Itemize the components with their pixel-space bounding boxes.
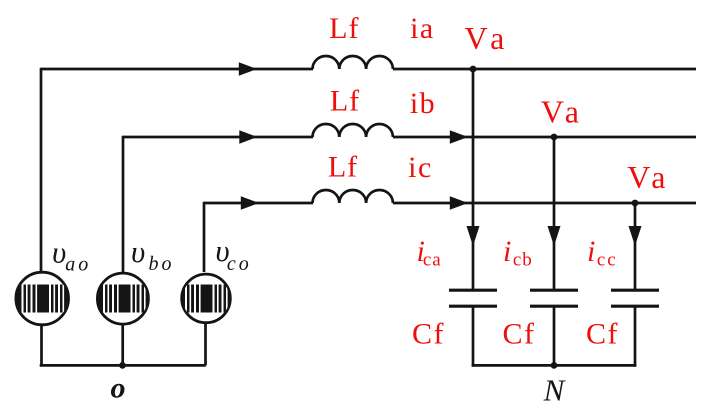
arrow current icc down capacitor branch c <box>629 226 642 246</box>
arrow current ic on phase-c wire (left) <box>241 196 259 209</box>
svg-text:Lf: Lf <box>329 12 359 45</box>
svg-text:Va: Va <box>627 159 665 195</box>
wire capacitor branch a vertical upper <box>472 69 475 290</box>
svg-text:o: o <box>111 372 126 405</box>
inductor Lf phase b <box>313 124 393 137</box>
svg-text:ic: ic <box>408 151 433 184</box>
capacitor Cf branch a plates <box>449 290 497 306</box>
wire capacitor branch c vertical upper <box>634 203 637 290</box>
wire source Vco bottom stub <box>204 321 207 365</box>
wire source Vao bottom stub <box>40 323 43 365</box>
svg-text:ib: ib <box>410 87 436 120</box>
voltage source Vbo <box>96 273 150 324</box>
junction node Va phase a <box>470 66 477 73</box>
wire capacitor branch b vertical upper <box>553 137 556 290</box>
arrow current ic on phase-c wire (mid) <box>450 196 468 209</box>
capacitor Cf branch b plates <box>530 290 578 306</box>
svg-text:ia: ia <box>410 12 435 45</box>
wire phase-a horizontal right segment <box>393 68 696 71</box>
wire source bottom bus to node o <box>40 364 206 367</box>
wire phase-b horizontal left segment <box>123 136 313 139</box>
arrow current ia on phase-a wire <box>239 62 257 75</box>
capacitor Cf branch c plates <box>611 290 659 306</box>
junction node Va phase b <box>551 134 558 141</box>
inductor Lf phase a <box>313 56 393 69</box>
svg-text:icc: icc <box>587 235 618 271</box>
arrow current icb down capacitor branch b <box>548 226 561 246</box>
arrow current ica down capacitor branch a <box>467 226 480 246</box>
wire phase-c horizontal left segment <box>204 202 313 205</box>
svg-text:ica: ica <box>417 235 442 271</box>
svg-text:Va: Va <box>541 93 579 129</box>
wire capacitor branch c vertical lower <box>634 306 637 366</box>
voltage source Vao <box>14 272 69 325</box>
wire phase-c horizontal right segment <box>393 202 696 205</box>
voltage source Vco <box>178 274 232 323</box>
wire phase-b horizontal right segment <box>393 136 696 139</box>
wire capacitor bottom bus to node N <box>472 364 637 367</box>
wire phase-b left vertical drop to source Vbo <box>122 136 125 272</box>
wire source Vbo bottom stub <box>121 323 124 366</box>
wire capacitor branch b vertical lower <box>553 306 556 366</box>
svg-text:υco: υco <box>215 233 251 275</box>
arrow current ib on phase-b wire (mid) <box>450 130 468 143</box>
svg-text:icb: icb <box>503 235 533 271</box>
svg-text:Lf: Lf <box>328 150 358 183</box>
wire capacitor branch a vertical lower <box>472 306 475 366</box>
wire phase-a horizontal left segment <box>41 68 313 71</box>
svg-text:Cf: Cf <box>586 317 619 350</box>
junction node o <box>119 362 126 369</box>
svg-text:N: N <box>543 373 567 408</box>
svg-text:Cf: Cf <box>503 317 536 350</box>
junction node N <box>551 362 558 369</box>
arrow current ib on phase-b wire (left) <box>239 130 257 143</box>
svg-text:υao: υao <box>52 235 91 276</box>
junction node Va phase c <box>632 200 639 207</box>
wire phase-c left vertical drop to source Vco <box>203 202 206 272</box>
inductor Lf phase c <box>313 190 393 203</box>
svg-text:Lf: Lf <box>330 85 360 118</box>
svg-text:Va: Va <box>465 20 505 56</box>
wire phase-a left vertical drop to source Vao <box>40 68 43 272</box>
svg-text:Cf: Cf <box>412 317 445 350</box>
svg-text:υbo: υbo <box>131 234 175 275</box>
